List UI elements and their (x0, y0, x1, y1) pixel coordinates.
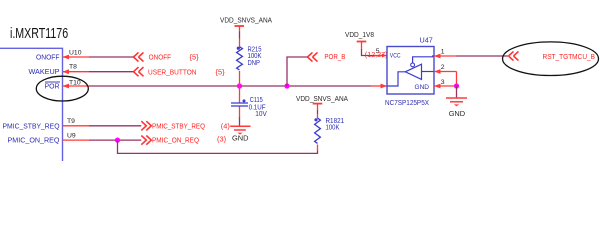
svg-text:(3): (3) (217, 134, 226, 143)
wire PMIC_STBY_REQ net (89, 125, 141, 127)
pin arrow pin3 (434, 84, 441, 89)
wire VDD to R1821 (317, 104, 319, 110)
svg-text:U10: U10 (69, 50, 82, 57)
wire VDD_1V8 to pin5 (361, 42, 363, 49)
wire PMIC_ON_REQ drop (118, 140, 318, 153)
svg-text:RST_TGTMCU_B: RST_TGTMCU_B (543, 52, 596, 61)
svg-text:VCC: VCC (390, 53, 401, 60)
svg-text:1: 1 (441, 49, 445, 56)
svg-text:WAKEUP: WAKEUP (29, 67, 60, 76)
wire R215 to junction (239, 71, 241, 86)
ellipse annotation POR (36, 76, 88, 101)
wire junction to C115 (239, 86, 241, 103)
svg-text:POR: POR (45, 82, 60, 91)
wire C115 to GND (239, 107, 241, 118)
svg-text:PMIC_STBY_REQ: PMIC_STBY_REQ (3, 121, 60, 130)
wire ONOFF net (89, 56, 134, 58)
wire enable to pin1 (413, 56, 434, 63)
pin arrow pin1 (434, 54, 441, 59)
pin arrow ONOFF (63, 55, 70, 60)
wire WAKEUP pin stub (63, 71, 90, 73)
pin arrow pin4 (381, 84, 388, 89)
enable bubble (411, 63, 415, 67)
svg-text:C115: C115 (250, 97, 263, 104)
off-page connector PMIC_ON_REQ (141, 136, 151, 145)
wire pin2 stub (434, 71, 457, 73)
off-page connector USER_BUTTON (134, 67, 144, 76)
capacitor C115 (231, 102, 248, 104)
svg-text:VDD_1V8: VDD_1V8 (345, 30, 374, 39)
wire pin2 internal (422, 71, 434, 73)
svg-text:VDD_SNVS_ANA: VDD_SNVS_ANA (296, 94, 348, 103)
wire R1821 to bottom (317, 145, 319, 151)
svg-text:{5}: {5} (190, 53, 200, 62)
off-page connector PMIC_STBY_REQ (141, 121, 151, 130)
svg-text:10V: 10V (255, 111, 267, 118)
svg-text:PMIC_ON_REQ: PMIC_ON_REQ (152, 136, 199, 145)
wire to GND2 (456, 86, 458, 98)
svg-text:(4): (4) (221, 122, 230, 131)
op-amp U47 box (387, 47, 434, 95)
buffer triangle U47 (405, 64, 421, 79)
wire WAKEUP net (89, 71, 134, 73)
svg-text:ONOFF: ONOFF (36, 52, 60, 61)
svg-text:GND: GND (415, 84, 430, 91)
pin arrow POR (63, 84, 70, 89)
wire pin4 internal (388, 72, 406, 86)
wire POR net (89, 85, 371, 87)
wire VDD to R215 (239, 27, 241, 32)
wire PMIC_ON_REQ pin stub (63, 139, 90, 141)
resistor R215 (237, 47, 243, 70)
wire POR pin stub (63, 85, 90, 87)
ellipse annotation RST_TGTMCU_B (503, 42, 599, 76)
svg-text:3: 3 (441, 79, 445, 86)
svg-text:{5}: {5} (216, 67, 226, 76)
svg-text:T8: T8 (69, 64, 77, 71)
svg-text:ONOFF: ONOFF (149, 53, 172, 62)
wire pin3 stub (434, 85, 457, 87)
chip U (MXRT1176) box (0, 48, 63, 168)
svg-text:(12,27): (12,27) (365, 50, 388, 59)
junction node R215/C115 (237, 83, 242, 88)
svg-text:VDD_SNVS_ANA: VDD_SNVS_ANA (220, 15, 272, 24)
svg-text:GND: GND (449, 109, 465, 118)
wire PMIC_STBY_REQ pin stub (63, 125, 90, 127)
svg-text:POR_B: POR_B (324, 52, 345, 61)
svg-text:i.MXRT1176: i.MXRT1176 (10, 24, 68, 41)
wire pin4 stub (371, 85, 387, 87)
wire pin5 stub (374, 55, 387, 57)
wire POR_B branch (287, 57, 308, 86)
svg-text:2: 2 (441, 64, 445, 71)
junction node pin3 gnd (454, 83, 459, 88)
svg-text:PMIC_ON_REQ: PMIC_ON_REQ (8, 136, 60, 145)
junction node POR_B (284, 83, 289, 88)
ground (C115) (230, 126, 250, 130)
junction node PMIC_ON_REQ (115, 138, 120, 143)
off-page connector ONOFF (134, 52, 144, 61)
svg-text:GND: GND (232, 134, 248, 143)
wire PMIC_ON_REQ net (89, 139, 141, 141)
ground (U47) (446, 98, 467, 102)
wire pin2 to pin3 (456, 72, 458, 87)
pin arrow pin2 (434, 69, 441, 74)
svg-text:T9: T9 (67, 118, 75, 125)
wire pin1 stub (434, 55, 456, 57)
pin arrow pin5 (382, 54, 387, 58)
svg-text:NC7SP125P5X: NC7SP125P5X (385, 98, 429, 107)
wire ONOFF pin stub (63, 56, 90, 58)
svg-text:U9: U9 (67, 133, 76, 140)
resistor R1821 (315, 118, 321, 143)
svg-text:PMIC_STBY_REQ: PMIC_STBY_REQ (152, 121, 205, 130)
wire RST net (456, 55, 508, 57)
svg-text:100K: 100K (326, 125, 340, 132)
off-page connector RST_TGTMCU_B (509, 51, 519, 60)
svg-text:DNP: DNP (248, 60, 261, 67)
off-page connector POR_B (308, 52, 318, 61)
svg-text:U47: U47 (420, 36, 433, 45)
pin arrow WAKEUP (63, 69, 70, 74)
svg-text:USER_BUTTON: USER_BUTTON (148, 67, 197, 76)
